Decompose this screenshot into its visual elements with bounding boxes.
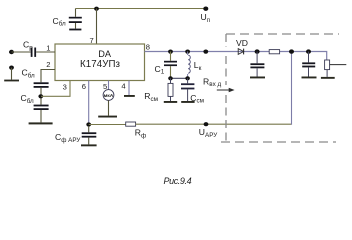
svg-text:UАРУ: UАРУ xyxy=(199,127,218,139)
svg-text:Uп: Uп xyxy=(201,12,210,24)
ground Cбл3 xyxy=(29,122,53,124)
label Rф xyxy=(135,128,146,140)
ground Cф АРУ xyxy=(81,144,97,146)
pin number 8 xyxy=(146,43,150,52)
pin number 3 xyxy=(63,83,67,92)
svg-text:Рис.9.4: Рис.9.4 xyxy=(164,176,192,186)
wire pin 5 to meter xyxy=(108,81,110,90)
ground Rсм xyxy=(164,101,177,103)
svg-text:1: 1 xyxy=(46,43,50,52)
label Uару xyxy=(199,127,218,139)
terminal input signal xyxy=(9,50,14,54)
node input ground stub top xyxy=(9,66,14,70)
node pin3/pin2 junction xyxy=(38,94,43,98)
pin number 4 xyxy=(121,82,125,91)
label Rсм xyxy=(144,91,158,103)
ground detector load xyxy=(321,77,335,79)
label C1 xyxy=(155,64,165,76)
ground pin 4 xyxy=(124,95,135,97)
capacitor Cсм xyxy=(181,78,194,101)
label VD xyxy=(236,38,248,48)
wire pin 8 output bus xyxy=(145,52,327,61)
label Cбл2 xyxy=(22,68,36,80)
label Rвх д xyxy=(203,76,221,88)
pin number 2 xyxy=(46,60,50,69)
wire pin 2 to Cбл2 xyxy=(41,70,55,83)
diode VD xyxy=(238,49,243,55)
svg-text:Cбл: Cбл xyxy=(53,16,67,28)
node detector cap 1 tap xyxy=(255,49,260,53)
svg-text:VD: VD xyxy=(236,38,248,48)
svg-text:4: 4 xyxy=(121,82,125,91)
inductor Lк xyxy=(188,52,191,79)
caption Рис.9.4 xyxy=(164,176,192,186)
detector block dashed box xyxy=(221,34,339,142)
pin number 6 xyxy=(82,82,86,91)
label Cсм xyxy=(190,93,204,105)
node AGC filter junction xyxy=(86,122,91,126)
svg-text:Rсм: Rсм xyxy=(144,91,158,103)
label Uп xyxy=(201,12,210,24)
wire AGC node to Rф xyxy=(89,124,126,126)
pin number 5 xyxy=(103,82,107,91)
label Cбл3 xyxy=(21,93,35,105)
svg-text:Cр: Cр xyxy=(23,40,33,52)
label Cр xyxy=(23,40,33,52)
svg-text:8: 8 xyxy=(146,43,150,52)
ground meter xyxy=(98,100,117,117)
svg-text:Cбл: Cбл xyxy=(21,93,35,105)
node detector cap 2 tap xyxy=(306,49,311,53)
wire input to Cр xyxy=(12,51,31,53)
resistor Rсм xyxy=(168,78,173,101)
svg-text:Rвх д: Rвх д xyxy=(203,76,221,88)
svg-text:2: 2 xyxy=(46,60,50,69)
wire pin 3 to junction xyxy=(41,81,70,97)
node detector tap xyxy=(203,50,208,54)
svg-text:C1: C1 xyxy=(155,64,165,76)
svg-text:Lк: Lк xyxy=(194,60,202,72)
node feedback riser tap xyxy=(289,49,294,53)
capacitor C1 xyxy=(164,52,177,79)
wire Rф to Uару to feedback riser xyxy=(136,52,292,125)
label Cбл1 xyxy=(53,16,67,28)
arrow Rвх д input direction xyxy=(217,88,235,93)
resistor detector load (vertical) xyxy=(325,60,330,77)
capacitor detector C (right) xyxy=(302,52,315,77)
wire detector output tap xyxy=(330,64,347,66)
svg-text:Cбл: Cбл xyxy=(22,68,36,80)
svg-text:Rф: Rф xyxy=(135,128,146,140)
capacitor Cбл2 (pin 2 bypass) xyxy=(34,82,49,104)
capacitor Cр (series input) xyxy=(31,48,36,57)
resistor Rф xyxy=(126,122,136,126)
capacitor Cбл3 (lower bypass) xyxy=(34,105,49,123)
meter PA1 microammeter xyxy=(103,90,114,101)
pin number 7 xyxy=(90,36,94,45)
node Lк bottom xyxy=(185,76,190,80)
svg-text:DA: DA xyxy=(98,49,112,59)
node Lк tap xyxy=(185,50,190,54)
wire C1-Lк bottom connector xyxy=(171,77,188,79)
svg-text:мкА: мкА xyxy=(104,93,115,98)
ground input xyxy=(4,68,19,82)
node Uару xyxy=(204,122,209,126)
svg-text:6: 6 xyxy=(82,82,86,91)
ground detector C left xyxy=(250,77,265,79)
label Lк xyxy=(194,60,202,72)
wire Cр to pin 1 xyxy=(36,51,55,53)
svg-text:Cф АРУ: Cф АРУ xyxy=(55,132,81,144)
resistor detector series xyxy=(269,50,279,54)
node Vcc junction (pin 7 tap) xyxy=(94,7,99,11)
node C1 bottom xyxy=(168,76,173,80)
svg-text:3: 3 xyxy=(63,83,67,92)
wire Vcc top rail xyxy=(76,8,207,10)
capacitor Cф АРУ xyxy=(82,126,97,144)
op-amp U1 IC DA К174УПз xyxy=(55,44,145,81)
wire pin 6 down to AGC node xyxy=(88,81,90,125)
pin number 1 xyxy=(46,43,50,52)
label Cф АРУ xyxy=(55,132,81,144)
capacitor detector C (left) xyxy=(250,52,264,77)
terminal Uп xyxy=(203,7,208,11)
capacitor Cбл1 (top, supply bypass) xyxy=(69,9,82,31)
ground Cсм xyxy=(181,101,194,103)
ground detector C right xyxy=(302,77,317,79)
svg-text:К174УПз: К174УПз xyxy=(80,59,121,70)
node C1 tap xyxy=(168,50,173,54)
wire pin 7 to Vcc rail xyxy=(96,9,98,45)
wire pin 4 to ground xyxy=(128,81,130,96)
